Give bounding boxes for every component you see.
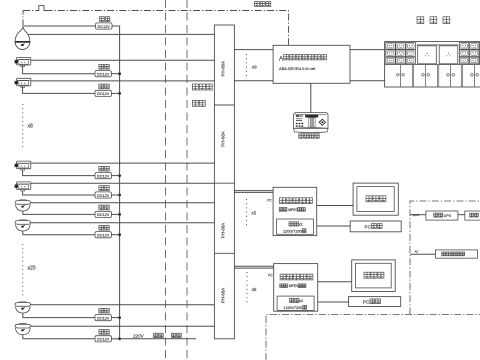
ellipsis dotted matrix inputs: [246, 54, 248, 78]
svg-text:220V: 220V: [133, 333, 145, 338]
wire DVR2 to PC keyboard: [318, 301, 349, 303]
wire to regulator: [410, 253, 435, 255]
junction power bus CAM3: [118, 92, 121, 95]
label 电源 for CAM3: [99, 84, 109, 89]
power supply box DC12V for CAM8: [95, 315, 111, 321]
label 日矩阵控制主机: [284, 55, 327, 60]
wire power CAM5: [23, 191, 95, 195]
camera CAM2 box camera: [15, 57, 31, 66]
boundary dash-dot control room bottom: [266, 315, 480, 360]
svg-text:x2: x2: [299, 223, 303, 227]
cabinet door unit boundary: [411, 65, 413, 87]
cabinet door divider: [450, 65, 452, 87]
wire bundle distributor to DVR1: [234, 190, 273, 192]
wire video CAM2 to distributor: [31, 59, 215, 61]
door handle: [397, 74, 400, 77]
wire 220V AC mains: [120, 338, 196, 340]
distributor segment divider: [214, 104, 234, 106]
camera CAM6 half-dome: [15, 200, 31, 211]
wire video CAM8 to distributor: [31, 304, 215, 306]
wire power CAM8: [23, 313, 95, 318]
door handle: [402, 74, 405, 77]
power supply box DC12V for CAM7: [95, 232, 111, 238]
junction power bus CAM7: [118, 233, 121, 236]
label 电源 for CAM7: [99, 225, 109, 230]
power supply box DC12V for CAM1: [96, 23, 112, 29]
label 16路视频 DVR1: [279, 208, 287, 212]
regulated power box 稳压电源器: [435, 250, 477, 258]
wire matrix to main keyboard: [310, 83, 312, 112]
svg-text:PH-68A: PH-68A: [221, 288, 226, 303]
door handle: [427, 74, 430, 77]
label 电源 for CAM8: [99, 308, 109, 313]
ellipsis dotted line cameras group 2: [22, 244, 24, 296]
DVR2 disk sub-box: [277, 296, 314, 310]
junction power bus CAM8: [118, 316, 121, 319]
wire matrix to monitor wall 2: [350, 80, 385, 82]
label 压缩 DVR1: [298, 208, 306, 212]
wire power CAM3 to bus: [111, 92, 119, 94]
wire power CAM4 to bus: [111, 175, 119, 177]
svg-text:DC12V: DC12V: [97, 213, 110, 217]
wire power CAM6 to bus: [111, 213, 119, 215]
wire video CAM3 to distributor: [31, 80, 215, 82]
DVR1 box 硬盘录像机: [273, 187, 317, 235]
label 显示器 text DVR2: [364, 272, 384, 278]
svg-text:MPEG: MPEG: [288, 208, 298, 212]
svg-text:PC: PC: [267, 198, 272, 202]
label 主控键盘: [299, 134, 319, 138]
small monitor L33: [406, 57, 415, 64]
wire control-line bump: [38, 6, 46, 11]
small monitor L21: [386, 50, 395, 57]
label 电源 for CAM4: [99, 166, 109, 171]
small monitor L31: [386, 57, 395, 64]
wire power CAM2: [23, 65, 95, 74]
junction power bus CAM5: [118, 194, 121, 197]
distributor segment divider: [214, 182, 234, 184]
label 交流 (AC): [154, 333, 164, 337]
wire DVR1 to monitor: [317, 205, 353, 207]
svg-text:PC: PC: [365, 225, 372, 230]
cabinet door unit boundary: [436, 65, 438, 87]
label 在线 UPS: [434, 213, 443, 217]
camera CAM9 half-dome: [15, 324, 31, 335]
svg-text:PC: PC: [268, 274, 273, 278]
door handle: [476, 74, 479, 77]
wire PTZ camera neck: [22, 22, 24, 28]
label 硬盘录像机 DVR1: [280, 198, 313, 204]
svg-text:DC12V: DC12V: [97, 73, 110, 77]
svg-text:PH-68A: PH-68A: [221, 131, 226, 146]
label 转 DVR2: [303, 305, 307, 309]
junction power bus CAM2: [118, 72, 121, 75]
small monitor R31: [459, 57, 468, 64]
wire power CAM4: [23, 170, 95, 176]
ellipsis dotted line cameras group 1: [22, 104, 24, 150]
UPS box 在线UPS: [426, 211, 458, 220]
svg-text:x5: x5: [252, 210, 257, 215]
wire distributor to matrix 1: [234, 49, 273, 51]
monitor 显示器 DVR2: [352, 260, 396, 292]
power supply box DC12V for CAM3: [95, 90, 111, 96]
cabinet door divider: [474, 65, 476, 87]
video distributor box 视频分配器: [214, 25, 234, 339]
small monitor R22: [470, 50, 479, 57]
wire power CAM1 to bus corner: [112, 26, 120, 339]
PC keyboard box DVR2: [349, 297, 401, 307]
small monitor R12: [470, 43, 479, 50]
DVR2 box 硬盘录像机: [274, 264, 318, 312]
label 电源 for CAM6: [99, 205, 109, 210]
wire power CAM1: [24, 25, 95, 27]
matrix control host box AB矩阵控制主机: [273, 45, 350, 83]
junction power bus CAM4: [118, 174, 121, 177]
label 键盘 DVR1 keyboard: [372, 224, 383, 229]
wire video CAM5 to distributor: [31, 182, 215, 184]
label 电源 (power): [172, 333, 182, 337]
svg-text:DC12V: DC12V: [97, 174, 110, 178]
svg-text:120G/7200: 120G/7200: [284, 306, 303, 310]
monitor wall center top strip: [417, 44, 459, 46]
label 电源 for CAM1: [100, 17, 110, 22]
wire DVR1 to PC keyboard: [317, 225, 351, 227]
door handle: [471, 74, 474, 77]
wire to UPS: [410, 214, 426, 216]
monitor wall cabinet: [385, 42, 480, 87]
svg-text:DC12V: DC12V: [97, 92, 110, 96]
zone divider dashed line 2: [186, 0, 188, 360]
power supply box DC12V for CAM6: [95, 211, 111, 217]
camera CAM8 half-dome: [15, 302, 31, 313]
label 配器: [192, 100, 205, 106]
cabinet shelf line: [385, 64, 480, 66]
svg-text:PC: PC: [363, 300, 370, 305]
label 转 DVR1: [302, 229, 306, 233]
wire UPS to next box: [458, 214, 465, 216]
monitor 显示器 DVR1: [353, 183, 398, 215]
camera CAM3 box camera: [15, 78, 31, 87]
power supply box DC12V for CAM5: [95, 192, 111, 198]
svg-text:120G/7200: 120G/7200: [283, 229, 302, 233]
small monitor L32: [396, 57, 405, 64]
door handle: [447, 74, 450, 77]
wire power CAM2 to bus: [111, 73, 119, 75]
label 16路视频 DVR2: [280, 284, 288, 288]
large monitor 1: [418, 46, 437, 64]
camera CAM5 box camera: [15, 182, 31, 191]
wire control-line dash-dot to matrix host: [46, 11, 289, 46]
svg-text:x8: x8: [28, 124, 34, 130]
small monitor L13: [406, 43, 415, 50]
door handle: [422, 74, 425, 77]
svg-text:DC12V: DC12V: [97, 234, 110, 238]
wire power CAM3: [23, 86, 95, 94]
cabinet door divider: [425, 65, 427, 87]
wire video CAM4 to distributor: [31, 162, 215, 164]
label 视频分: [192, 84, 212, 90]
wire video CAM9 to distributor: [31, 325, 215, 327]
wire power CAM7: [23, 231, 95, 235]
small monitor R32: [470, 57, 479, 64]
label clipped box text: [470, 213, 479, 217]
small monitor L12: [396, 43, 405, 50]
svg-text:AB8-SEVR4.0-N net: AB8-SEVR4.0-N net: [279, 66, 316, 71]
wire video CAM7 to distributor: [31, 222, 215, 224]
power supply box DC12V for CAM4: [95, 173, 111, 179]
svg-text:x2: x2: [299, 299, 303, 303]
svg-text:x20: x20: [28, 266, 36, 272]
PC keyboard box DVR1: [350, 221, 401, 232]
distributor segment divider: [214, 252, 234, 254]
large monitor 2: [439, 46, 458, 64]
wire distributor to matrix 2: [234, 80, 273, 82]
svg-text:MPEG: MPEG: [289, 284, 299, 288]
svg-text:PH-68A: PH-68A: [221, 223, 226, 238]
label 硬盘录像机 DVR2: [280, 274, 313, 280]
label 键盘 DVR2 keyboard: [370, 299, 381, 304]
camera CAM1 PTZ dome: [15, 27, 30, 50]
wire power CAM5 to bus: [111, 194, 119, 196]
power supply box DC12V for CAM2: [95, 71, 111, 77]
power supply box DC12V for CAM9: [95, 336, 111, 342]
cabinet door divider: [400, 65, 402, 87]
small monitor R11: [459, 43, 468, 50]
svg-text:x5: x5: [252, 287, 257, 292]
svg-text:DC12V: DC12V: [97, 338, 110, 342]
label 电源 for CAM2: [99, 64, 109, 69]
camera CAM7 half-dome: [15, 220, 31, 231]
label 电源 for CAM9: [99, 330, 109, 335]
svg-text:x9: x9: [252, 65, 257, 70]
box right clipped: [465, 211, 480, 220]
junction power bus CAM6: [118, 213, 121, 216]
wire video CAM1 to distributor: [28, 33, 214, 35]
wire video CAM6 to distributor: [31, 202, 215, 204]
label 硬盘 DVR1: [289, 222, 298, 226]
wire power CAM7 to bus: [111, 234, 119, 236]
wire riser to PTZ camera: [22, 11, 24, 22]
small monitor L22: [396, 50, 405, 57]
label 电源 for CAM5: [99, 186, 109, 191]
cabinet door unit boundary: [460, 65, 462, 87]
camera CAM4 box camera: [15, 161, 31, 170]
wire power CAM9 to bus: [111, 338, 119, 340]
small monitor L11: [386, 43, 395, 50]
small monitor L23: [406, 50, 415, 57]
svg-text:DC12V: DC12V: [97, 194, 110, 198]
ellipsis dotted DVR2 inputs: [246, 272, 248, 304]
svg-text:DC12V: DC12V: [98, 25, 111, 29]
wire DVR2 to monitor: [318, 281, 352, 283]
svg-text:UPS: UPS: [444, 214, 452, 218]
wire power CAM6: [23, 211, 95, 214]
svg-text:PH-68A: PH-68A: [221, 61, 226, 76]
label 显示器 text DVR1: [366, 196, 386, 202]
wire power CAM9: [23, 335, 95, 339]
svg-text:DC12V: DC12V: [97, 316, 110, 320]
wire control-line dash-dot bus from camera riser to matrix host: [23, 10, 38, 12]
boundary dash-dot UPS zone: [410, 201, 480, 315]
zone divider dashed line 1: [165, 0, 167, 360]
label 硬盘 DVR2: [290, 298, 299, 302]
wire matrix to monitor wall 1: [350, 49, 385, 51]
keyboard 主控键盘: [294, 113, 329, 133]
wire power CAM8 to bus: [111, 317, 119, 319]
junction power bus CAM9: [118, 337, 121, 340]
label 压缩 DVR2: [298, 284, 306, 288]
label 显示屏 (display wall): [417, 17, 450, 24]
DVR1 disk sub-box: [277, 219, 314, 234]
svg-text:AC: AC: [415, 249, 419, 253]
ellipsis dotted DVR1 inputs: [246, 199, 248, 226]
label 控制线 (control line): [255, 2, 271, 7]
wire bundle distributor to DVR2: [234, 265, 273, 267]
door handle: [452, 74, 455, 77]
label 稳压电源器: [442, 252, 465, 256]
small monitor R21: [459, 50, 468, 57]
